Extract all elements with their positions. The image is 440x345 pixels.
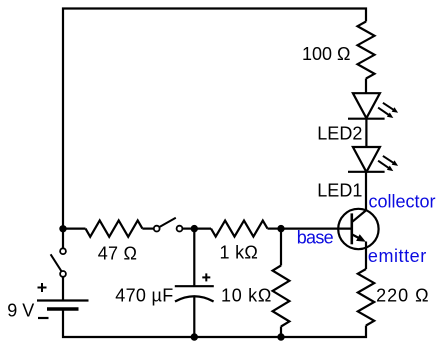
wire top-left loop	[63, 9, 366, 230]
wire emitter	[365, 242, 367, 270]
resistor 100 ohm	[358, 22, 375, 79]
svg-text:470 µF: 470 µF	[115, 285, 173, 305]
capacitor C1	[175, 273, 214, 301]
svg-text:9 V: 9 V	[7, 300, 34, 320]
svg-text:220 Ω: 220 Ω	[376, 285, 430, 305]
switch S1 (vertical)	[51, 248, 66, 276]
svg-text:emitter: emitter	[368, 246, 427, 266]
resistor 220 ohm	[358, 269, 374, 326]
resistor 10k	[273, 266, 290, 327]
resistor 47 ohm	[86, 220, 143, 236]
svg-text:10 kΩ: 10 kΩ	[221, 286, 272, 306]
wire	[365, 79, 367, 94]
node C	[277, 225, 284, 232]
wire	[63, 228, 86, 230]
wire	[365, 119, 367, 147]
capacitor C1 wire	[193, 229, 195, 287]
wire battery top	[62, 277, 64, 301]
svg-text:collector: collector	[369, 191, 436, 211]
wire 10k top	[280, 229, 282, 266]
LED1	[348, 147, 398, 172]
wire	[194, 228, 211, 230]
node A	[59, 225, 66, 232]
node D	[191, 333, 198, 340]
wire bottom loop	[63, 310, 366, 337]
svg-text:base: base	[297, 228, 334, 248]
svg-text:100 Ω: 100 Ω	[302, 44, 351, 64]
wire base	[281, 228, 351, 230]
wire	[142, 228, 153, 230]
wire	[193, 297, 195, 338]
wire	[182, 228, 194, 230]
wire	[268, 228, 282, 230]
switch S2 (horizontal)	[154, 218, 183, 232]
wire	[62, 229, 64, 248]
transistor Q1	[338, 209, 378, 249]
svg-text:LED2: LED2	[317, 124, 362, 144]
svg-text:LED1: LED1	[317, 180, 362, 200]
resistor 1k	[211, 221, 268, 237]
wire	[280, 327, 282, 338]
node B	[191, 225, 198, 232]
battery B1	[37, 283, 89, 318]
wire collector	[365, 172, 367, 211]
svg-text:47 Ω: 47 Ω	[98, 244, 137, 264]
LED2	[348, 93, 398, 119]
svg-text:1 kΩ: 1 kΩ	[220, 242, 259, 262]
node E	[277, 333, 284, 340]
